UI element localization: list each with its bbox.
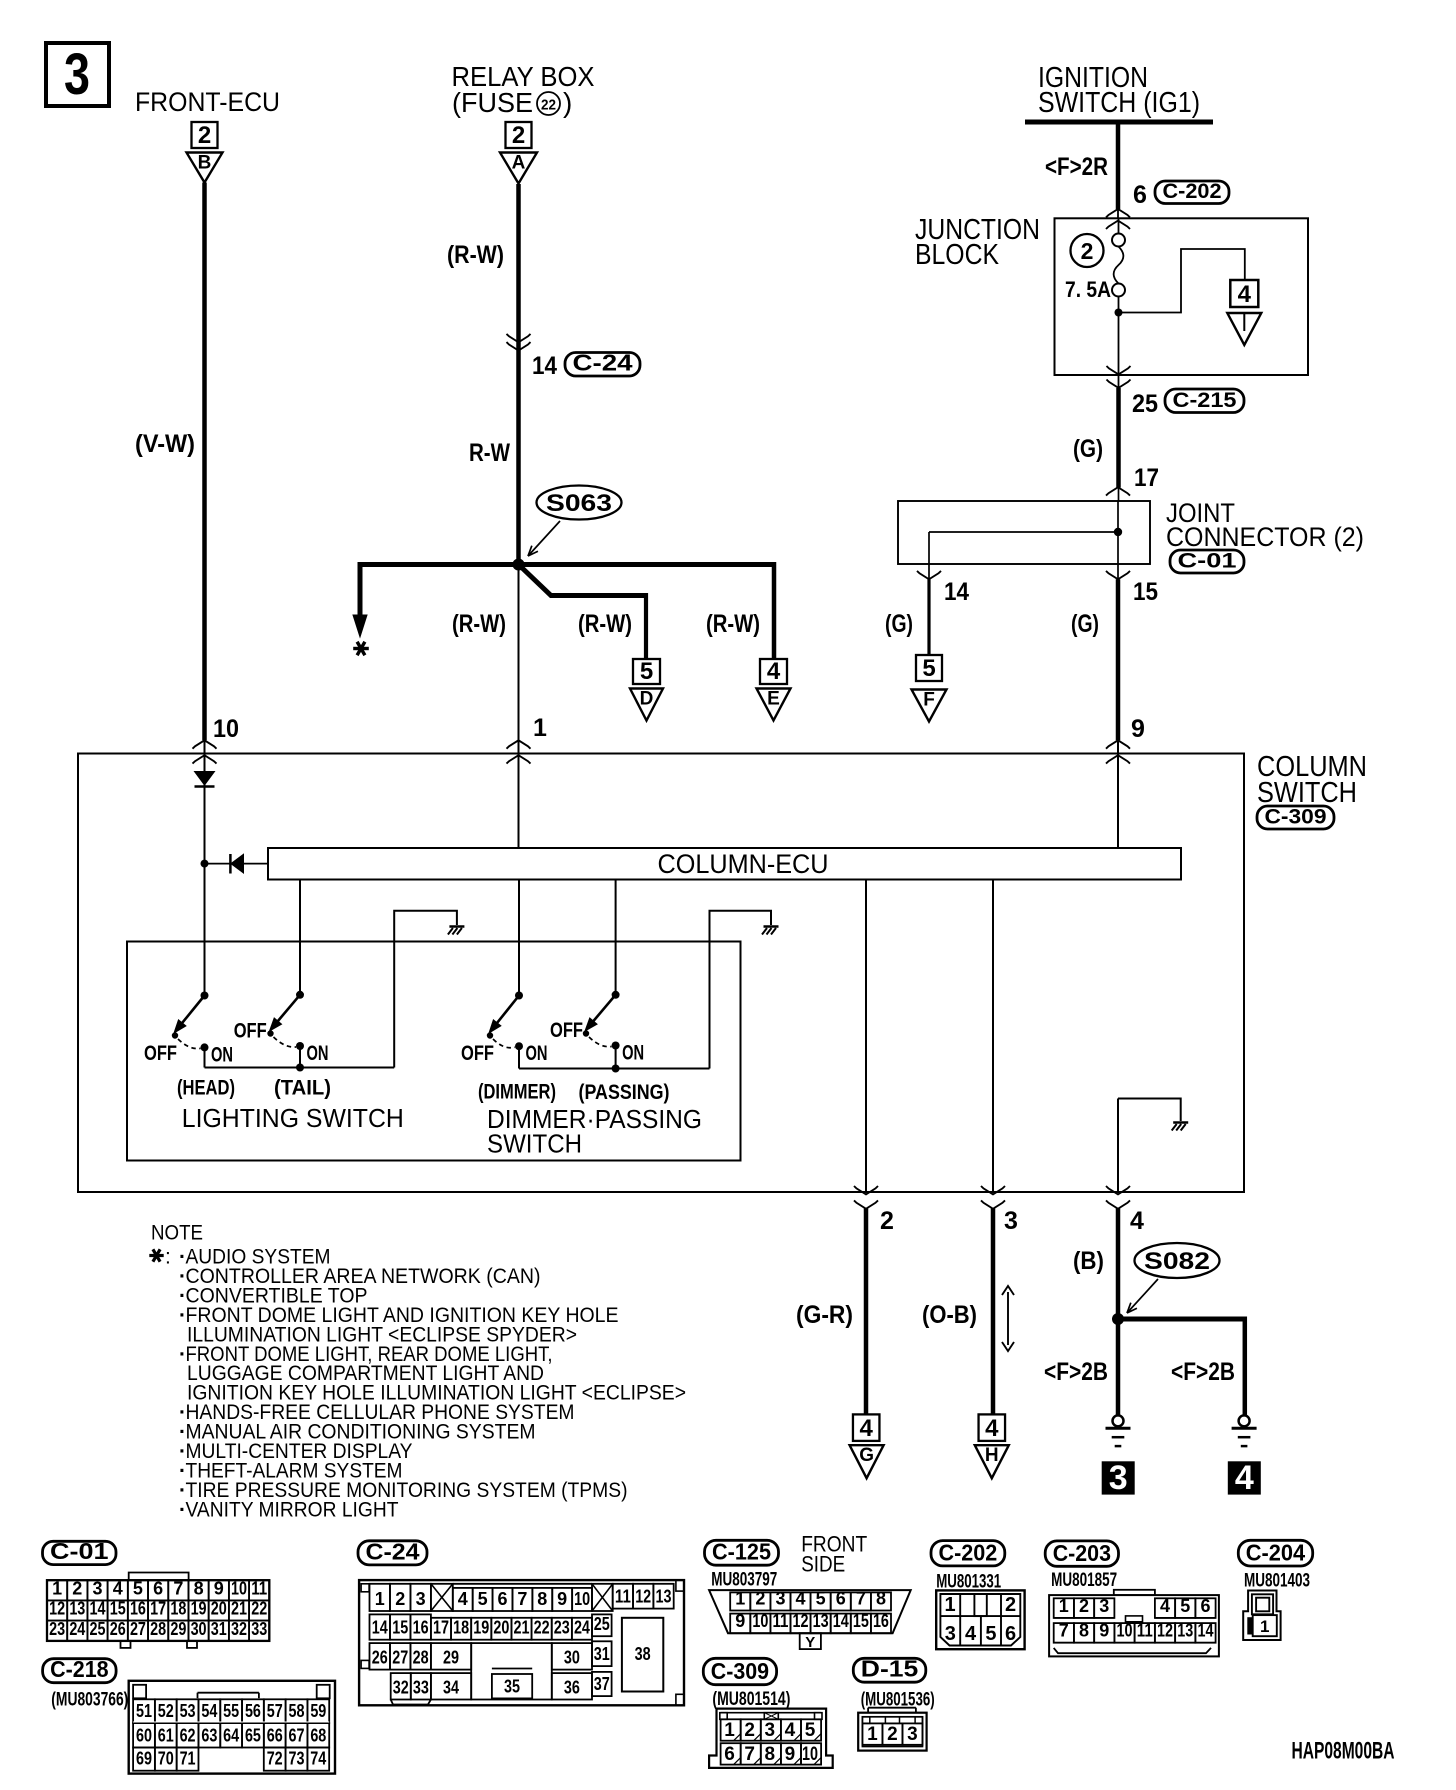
svg-text:30: 30 xyxy=(191,1619,207,1639)
svg-text:9: 9 xyxy=(557,1589,567,1609)
svg-text:C-125: C-125 xyxy=(712,1539,771,1565)
svg-text:14: 14 xyxy=(532,352,557,380)
svg-text:MU803797: MU803797 xyxy=(711,1570,777,1591)
svg-text:6: 6 xyxy=(836,1589,846,1609)
svg-text:R-W: R-W xyxy=(469,439,510,467)
svg-text:56: 56 xyxy=(245,1701,261,1721)
svg-text:13: 13 xyxy=(1177,1621,1193,1641)
svg-text:5: 5 xyxy=(478,1589,488,1609)
svg-text:2: 2 xyxy=(887,1724,898,1745)
svg-text:4: 4 xyxy=(796,1589,806,1609)
svg-text:12: 12 xyxy=(793,1611,809,1631)
svg-text:20: 20 xyxy=(211,1599,227,1619)
svg-text:20: 20 xyxy=(493,1618,509,1638)
svg-text:6: 6 xyxy=(724,1744,735,1765)
svg-text:C-204: C-204 xyxy=(1246,1540,1306,1566)
svg-text:B: B xyxy=(198,153,212,174)
svg-text:C-309: C-309 xyxy=(711,1658,769,1684)
svg-text:A: A xyxy=(512,153,526,174)
svg-text:22: 22 xyxy=(534,1618,550,1638)
svg-text:24: 24 xyxy=(574,1618,590,1638)
svg-text:D: D xyxy=(640,689,654,710)
svg-text:32: 32 xyxy=(393,1678,409,1698)
svg-text:2: 2 xyxy=(512,122,525,149)
svg-text:C-203: C-203 xyxy=(1053,1540,1111,1566)
svg-text:(G): (G) xyxy=(885,610,913,638)
svg-text:33: 33 xyxy=(251,1619,267,1639)
svg-text:(R-W): (R-W) xyxy=(706,610,760,638)
svg-text:3: 3 xyxy=(1099,1596,1109,1616)
svg-text:C-309: C-309 xyxy=(1265,806,1327,829)
svg-text:51: 51 xyxy=(136,1701,152,1721)
svg-text:7: 7 xyxy=(173,1578,183,1598)
svg-text:15: 15 xyxy=(1133,578,1158,606)
svg-text:9: 9 xyxy=(1131,715,1145,743)
svg-text:29: 29 xyxy=(170,1619,186,1639)
svg-text:68: 68 xyxy=(310,1726,326,1746)
svg-text:5: 5 xyxy=(805,1720,816,1741)
svg-text:<F>2R: <F>2R xyxy=(1045,153,1108,181)
svg-text:(O-B): (O-B) xyxy=(922,1301,977,1329)
svg-text:3: 3 xyxy=(93,1578,103,1598)
svg-text:55: 55 xyxy=(223,1701,239,1721)
svg-text:10: 10 xyxy=(574,1589,590,1609)
svg-text:8: 8 xyxy=(194,1578,204,1598)
svg-text:7. 5A: 7. 5A xyxy=(1065,277,1111,302)
svg-text:(B): (B) xyxy=(1073,1247,1104,1275)
svg-text:4: 4 xyxy=(1130,1207,1144,1235)
svg-text:10: 10 xyxy=(1117,1621,1133,1641)
svg-text:MU801857: MU801857 xyxy=(1051,1570,1117,1591)
svg-text:2: 2 xyxy=(755,1589,765,1609)
svg-text:67: 67 xyxy=(289,1726,305,1746)
svg-text:6: 6 xyxy=(153,1578,163,1598)
svg-text:54: 54 xyxy=(201,1701,217,1721)
svg-text:71: 71 xyxy=(180,1749,196,1769)
svg-text:2: 2 xyxy=(1079,1596,1089,1616)
svg-text:61: 61 xyxy=(158,1726,174,1746)
svg-text:5: 5 xyxy=(640,658,653,685)
svg-text:18: 18 xyxy=(170,1599,186,1619)
svg-text:15: 15 xyxy=(853,1611,869,1631)
svg-text:8: 8 xyxy=(1079,1621,1089,1641)
svg-text:ON: ON xyxy=(211,1043,233,1066)
svg-text:(R-W): (R-W) xyxy=(447,241,504,269)
svg-text:(R-W): (R-W) xyxy=(578,610,632,638)
svg-text:14: 14 xyxy=(833,1611,849,1631)
svg-text:C-24: C-24 xyxy=(573,350,633,376)
svg-text:12: 12 xyxy=(635,1587,651,1607)
svg-text:3: 3 xyxy=(1109,1459,1128,1497)
svg-text:BLOCK: BLOCK xyxy=(915,239,1000,271)
svg-text:27: 27 xyxy=(392,1648,408,1668)
svg-text:28: 28 xyxy=(413,1648,429,1668)
svg-text:34: 34 xyxy=(443,1678,459,1698)
svg-text:2: 2 xyxy=(744,1720,755,1741)
svg-text:COLUMN-ECU: COLUMN-ECU xyxy=(658,849,829,879)
svg-text:63: 63 xyxy=(201,1726,217,1746)
svg-text:1: 1 xyxy=(1059,1596,1069,1616)
svg-text:17: 17 xyxy=(1134,464,1159,492)
svg-text:5: 5 xyxy=(133,1578,143,1598)
svg-text:5: 5 xyxy=(1180,1596,1190,1616)
svg-text:10: 10 xyxy=(231,1578,247,1598)
svg-text:65: 65 xyxy=(245,1726,261,1746)
svg-text:24: 24 xyxy=(69,1619,85,1639)
svg-text:ON: ON xyxy=(307,1042,329,1065)
svg-text:SWITCH (IG1): SWITCH (IG1) xyxy=(1038,87,1200,119)
svg-text:7: 7 xyxy=(744,1744,755,1765)
svg-text:<F>2B: <F>2B xyxy=(1171,1358,1235,1386)
svg-text:53: 53 xyxy=(180,1701,196,1721)
svg-text:3: 3 xyxy=(945,1623,956,1645)
svg-text:29: 29 xyxy=(443,1648,459,1668)
svg-text:Y: Y xyxy=(805,1634,815,1651)
svg-text:7: 7 xyxy=(517,1589,527,1609)
svg-text:13: 13 xyxy=(69,1599,85,1619)
svg-text:8: 8 xyxy=(765,1744,776,1765)
svg-text:16: 16 xyxy=(413,1618,429,1638)
svg-text:(MU803766): (MU803766) xyxy=(51,1690,128,1711)
svg-text:3: 3 xyxy=(416,1589,426,1609)
svg-text:4: 4 xyxy=(113,1578,123,1598)
svg-text:18: 18 xyxy=(453,1618,469,1638)
svg-text:G: G xyxy=(859,1445,874,1466)
svg-text:52: 52 xyxy=(158,1701,174,1721)
svg-text:27: 27 xyxy=(130,1619,146,1639)
svg-text:4: 4 xyxy=(1238,281,1252,308)
svg-text:11: 11 xyxy=(1137,1621,1153,1641)
svg-text:D-15: D-15 xyxy=(861,1656,919,1682)
svg-text:14: 14 xyxy=(1197,1621,1213,1641)
svg-text:11: 11 xyxy=(772,1611,788,1631)
svg-text:9: 9 xyxy=(1099,1621,1109,1641)
svg-text:4: 4 xyxy=(985,1415,999,1442)
svg-text:<F>2B: <F>2B xyxy=(1044,1358,1108,1386)
svg-text:16: 16 xyxy=(130,1599,146,1619)
svg-text:6: 6 xyxy=(1133,181,1147,209)
svg-text:C-01: C-01 xyxy=(50,1538,109,1564)
svg-text::: : xyxy=(165,1246,171,1269)
svg-text:28: 28 xyxy=(150,1619,166,1639)
svg-text:57: 57 xyxy=(267,1701,283,1721)
svg-text:(HEAD): (HEAD) xyxy=(177,1077,235,1100)
svg-text:SWITCH: SWITCH xyxy=(1257,777,1357,809)
svg-text:ON: ON xyxy=(622,1042,644,1065)
svg-text:25: 25 xyxy=(90,1619,106,1639)
svg-text:C-01: C-01 xyxy=(1178,550,1237,573)
svg-text:38: 38 xyxy=(635,1644,651,1664)
svg-text:4: 4 xyxy=(1235,1459,1254,1497)
svg-text:10: 10 xyxy=(213,715,239,743)
svg-text:11: 11 xyxy=(615,1587,631,1607)
svg-text:69: 69 xyxy=(136,1749,152,1769)
svg-text:): ) xyxy=(563,87,572,118)
svg-text:1: 1 xyxy=(724,1720,735,1741)
svg-text:60: 60 xyxy=(136,1726,152,1746)
svg-text:30: 30 xyxy=(564,1648,580,1668)
svg-text:21: 21 xyxy=(514,1618,530,1638)
svg-text:22: 22 xyxy=(541,97,556,114)
svg-text:72: 72 xyxy=(267,1749,283,1769)
svg-text:13: 13 xyxy=(656,1587,672,1607)
svg-text:(DIMMER): (DIMMER) xyxy=(478,1081,556,1104)
svg-text:1: 1 xyxy=(944,1594,955,1616)
svg-text:5: 5 xyxy=(922,655,935,682)
svg-text:(V-W): (V-W) xyxy=(135,430,195,458)
svg-text:1: 1 xyxy=(735,1589,745,1609)
svg-text:6: 6 xyxy=(1200,1596,1210,1616)
svg-text:S082: S082 xyxy=(1144,1248,1210,1275)
svg-text:(PASSING): (PASSING) xyxy=(579,1081,670,1104)
svg-text:23: 23 xyxy=(49,1619,65,1639)
svg-text:4: 4 xyxy=(767,658,781,685)
svg-text:26: 26 xyxy=(372,1648,388,1668)
svg-text:19: 19 xyxy=(191,1599,207,1619)
svg-text:62: 62 xyxy=(180,1726,196,1746)
svg-text:F: F xyxy=(923,690,935,711)
svg-text:2: 2 xyxy=(880,1207,894,1235)
svg-text:S063: S063 xyxy=(546,490,612,517)
svg-text:HAP08M00BA: HAP08M00BA xyxy=(1292,1738,1395,1765)
svg-text:C-24: C-24 xyxy=(366,1538,420,1564)
svg-text:2: 2 xyxy=(1081,238,1094,264)
svg-text:8: 8 xyxy=(537,1589,547,1609)
svg-text:(G): (G) xyxy=(1073,435,1103,463)
svg-text:7: 7 xyxy=(856,1589,866,1609)
svg-text:3: 3 xyxy=(1004,1207,1018,1235)
svg-text:MU801403: MU801403 xyxy=(1244,1571,1310,1592)
svg-text:VANITY MIRROR LIGHT: VANITY MIRROR LIGHT xyxy=(186,1498,399,1521)
svg-text:9: 9 xyxy=(214,1578,224,1598)
svg-text:32: 32 xyxy=(231,1619,247,1639)
svg-text:2: 2 xyxy=(72,1578,82,1598)
svg-text:9: 9 xyxy=(785,1744,796,1765)
svg-text:33: 33 xyxy=(413,1678,429,1698)
svg-text:(MU801514): (MU801514) xyxy=(712,1689,790,1710)
svg-text:5: 5 xyxy=(816,1589,826,1609)
svg-text:7: 7 xyxy=(1059,1621,1069,1641)
svg-text:23: 23 xyxy=(554,1618,570,1638)
svg-text:C-202: C-202 xyxy=(1163,180,1222,203)
svg-text:1: 1 xyxy=(1260,1617,1269,1636)
svg-text:C-202: C-202 xyxy=(939,1539,998,1565)
svg-text:5: 5 xyxy=(985,1623,996,1645)
svg-text:36: 36 xyxy=(564,1678,580,1698)
svg-text:1: 1 xyxy=(533,714,547,742)
svg-text:73: 73 xyxy=(288,1749,304,1769)
svg-text:FRONT-ECU: FRONT-ECU xyxy=(135,87,280,117)
svg-text:2: 2 xyxy=(198,122,211,149)
svg-text:19: 19 xyxy=(473,1618,489,1638)
svg-text:8: 8 xyxy=(876,1589,886,1609)
svg-text:10: 10 xyxy=(752,1611,768,1631)
svg-text:66: 66 xyxy=(267,1726,283,1746)
svg-text:12: 12 xyxy=(49,1599,65,1619)
svg-text:22: 22 xyxy=(251,1599,267,1619)
svg-text:C-218: C-218 xyxy=(50,1656,109,1682)
svg-text:64: 64 xyxy=(223,1726,239,1746)
svg-text:4: 4 xyxy=(458,1589,468,1609)
svg-text:ON: ON xyxy=(526,1042,548,1065)
svg-text:59: 59 xyxy=(310,1701,326,1721)
svg-text:15: 15 xyxy=(110,1599,126,1619)
svg-text:SIDE: SIDE xyxy=(801,1551,845,1576)
svg-text:1: 1 xyxy=(375,1589,385,1609)
svg-text:OFF: OFF xyxy=(144,1042,177,1065)
svg-text:4: 4 xyxy=(785,1720,796,1741)
svg-text:10: 10 xyxy=(802,1744,818,1765)
svg-text:14: 14 xyxy=(944,578,969,606)
svg-text:LIGHTING SWITCH: LIGHTING SWITCH xyxy=(182,1103,404,1133)
svg-text:H: H xyxy=(985,1445,999,1466)
svg-text:OFF: OFF xyxy=(461,1042,494,1065)
svg-text:21: 21 xyxy=(231,1599,247,1619)
svg-text:11: 11 xyxy=(251,1578,267,1598)
svg-text:3: 3 xyxy=(64,42,90,107)
svg-text:OFF: OFF xyxy=(550,1019,583,1042)
svg-text:(G-R): (G-R) xyxy=(796,1301,853,1329)
svg-text:31: 31 xyxy=(594,1644,610,1664)
svg-text:25: 25 xyxy=(1132,390,1158,418)
svg-text:31: 31 xyxy=(211,1619,227,1639)
svg-text:NOTE: NOTE xyxy=(151,1222,203,1245)
svg-text:SWITCH: SWITCH xyxy=(487,1129,582,1159)
svg-text:4: 4 xyxy=(860,1415,874,1442)
svg-text:(TAIL): (TAIL) xyxy=(274,1077,331,1100)
svg-text:9: 9 xyxy=(735,1611,745,1631)
svg-text:4: 4 xyxy=(965,1623,977,1645)
svg-text:17: 17 xyxy=(150,1599,166,1619)
svg-text:1: 1 xyxy=(52,1578,62,1598)
svg-text:26: 26 xyxy=(110,1619,126,1639)
svg-text:35: 35 xyxy=(504,1676,520,1696)
svg-text:74: 74 xyxy=(310,1749,326,1769)
svg-text:3: 3 xyxy=(775,1589,785,1609)
svg-text:OFF: OFF xyxy=(234,1020,267,1043)
svg-text:70: 70 xyxy=(158,1749,174,1769)
svg-text:(FUSE: (FUSE xyxy=(452,87,533,118)
svg-text:58: 58 xyxy=(289,1701,305,1721)
svg-text:1: 1 xyxy=(867,1724,878,1745)
svg-text:6: 6 xyxy=(498,1589,508,1609)
svg-text:4: 4 xyxy=(1160,1596,1170,1616)
svg-text:2: 2 xyxy=(395,1589,405,1609)
svg-text:(G): (G) xyxy=(1071,610,1099,638)
svg-text:37: 37 xyxy=(594,1674,610,1694)
svg-text:3: 3 xyxy=(907,1724,918,1745)
svg-text:15: 15 xyxy=(392,1618,408,1638)
svg-text:17: 17 xyxy=(433,1618,449,1638)
svg-text:14: 14 xyxy=(372,1618,388,1638)
svg-text:(R-W): (R-W) xyxy=(452,610,506,638)
svg-text:25: 25 xyxy=(594,1614,610,1634)
svg-text:16: 16 xyxy=(873,1611,889,1631)
svg-text:CONNECTOR (2): CONNECTOR (2) xyxy=(1166,522,1364,552)
svg-text:3: 3 xyxy=(765,1720,776,1741)
svg-text:2: 2 xyxy=(1005,1594,1016,1616)
svg-text:13: 13 xyxy=(813,1611,829,1631)
svg-text:E: E xyxy=(767,689,780,710)
svg-text:6: 6 xyxy=(1005,1623,1016,1645)
svg-text:14: 14 xyxy=(90,1599,106,1619)
svg-text:12: 12 xyxy=(1157,1621,1173,1641)
svg-text:C-215: C-215 xyxy=(1173,389,1237,412)
